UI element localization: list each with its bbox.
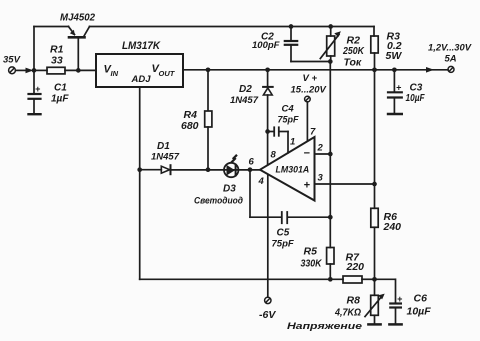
svg-text:1N457: 1N457 <box>151 152 180 163</box>
svg-text:1: 1 <box>290 137 295 148</box>
svg-text:Ток: Ток <box>344 57 362 69</box>
svg-text:10µF: 10µF <box>406 93 426 104</box>
svg-text:−: − <box>304 148 311 160</box>
svg-text:R5: R5 <box>304 246 318 258</box>
svg-text:680: 680 <box>181 120 199 132</box>
svg-text:D1: D1 <box>157 141 170 152</box>
svg-text:15...20V: 15...20V <box>291 85 327 96</box>
svg-text:ADJ: ADJ <box>131 74 152 85</box>
svg-text:6: 6 <box>249 157 255 168</box>
svg-text:Светодиод: Светодиод <box>194 196 243 207</box>
svg-text:10µF: 10µF <box>407 306 432 318</box>
svg-text:LM301A: LM301A <box>276 165 310 175</box>
svg-text:220: 220 <box>346 261 365 273</box>
svg-text:75pF: 75pF <box>272 239 294 250</box>
svg-text:1N457: 1N457 <box>230 95 259 106</box>
svg-text:+: + <box>396 83 402 93</box>
svg-text:5W: 5W <box>386 50 403 62</box>
svg-text:C3: C3 <box>410 83 423 94</box>
svg-text:V +: V + <box>303 73 318 84</box>
svg-text:OUT: OUT <box>159 69 176 78</box>
svg-text:250K: 250K <box>342 45 365 57</box>
svg-text:R8: R8 <box>347 295 361 307</box>
svg-text:100pF: 100pF <box>252 40 280 51</box>
svg-text:33: 33 <box>51 55 63 67</box>
svg-text:8: 8 <box>271 150 277 161</box>
svg-text:C5: C5 <box>277 228 290 239</box>
svg-text:IN: IN <box>111 69 119 78</box>
svg-text:C1: C1 <box>54 83 67 94</box>
svg-text:1,2V...30V: 1,2V...30V <box>428 43 472 53</box>
svg-text:35V: 35V <box>3 55 21 66</box>
svg-text:+: + <box>304 180 311 192</box>
svg-text:C4: C4 <box>282 104 295 115</box>
svg-text:75pF: 75pF <box>278 115 300 125</box>
svg-text:5A: 5A <box>445 54 457 65</box>
svg-text:D2: D2 <box>239 84 252 95</box>
svg-text:1µF: 1µF <box>51 94 69 105</box>
svg-text:7: 7 <box>310 127 316 138</box>
svg-text:+: + <box>35 84 41 94</box>
svg-text:3: 3 <box>318 173 324 184</box>
svg-text:+: + <box>397 294 403 304</box>
svg-text:C6: C6 <box>414 293 428 305</box>
svg-text:Напряжение: Напряжение <box>287 321 363 332</box>
svg-text:240: 240 <box>383 221 402 233</box>
svg-text:2: 2 <box>317 143 324 154</box>
svg-text:-6V: -6V <box>259 309 276 321</box>
svg-text:D3: D3 <box>223 184 236 195</box>
svg-text:4,7KΩ: 4,7KΩ <box>334 307 361 319</box>
svg-text:LM317K: LM317K <box>122 40 161 52</box>
svg-text:4: 4 <box>258 176 265 187</box>
svg-text:330K: 330K <box>301 258 323 270</box>
svg-text:MJ4502: MJ4502 <box>60 12 95 24</box>
